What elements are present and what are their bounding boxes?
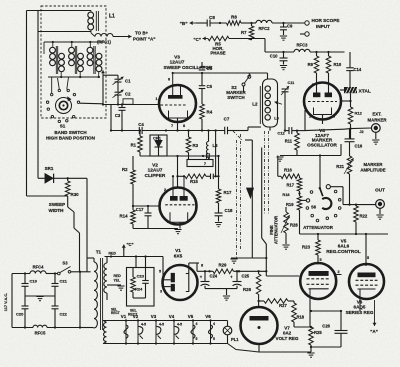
svg-text:HIGH BAND POSITION: HIGH BAND POSITION [46, 136, 95, 141]
svg-text:SR1: SR1 [45, 166, 54, 171]
svg-text:C25: C25 [242, 274, 250, 279]
svg-text:R27: R27 [279, 303, 287, 308]
svg-text:5: 5 [367, 256, 369, 260]
svg-text:R10: R10 [334, 62, 342, 67]
svg-text:V1: V1 [175, 248, 181, 254]
svg-text:R17: R17 [224, 190, 233, 195]
svg-text:PHASE: PHASE [210, 51, 225, 56]
svg-text:C9: C9 [287, 24, 293, 29]
svg-text:R23: R23 [302, 245, 311, 250]
svg-text:R18: R18 [282, 192, 290, 197]
svg-text:S3: S3 [62, 261, 68, 266]
svg-text:CR1: CR1 [153, 136, 162, 141]
svg-text:R30: R30 [71, 192, 80, 197]
svg-text:REG.CONTROL: REG.CONTROL [326, 249, 361, 254]
svg-text:ATTENUATOR: ATTENUATOR [274, 216, 279, 244]
svg-text:C26: C26 [322, 324, 330, 329]
svg-text:“B”: “B” [180, 21, 188, 26]
svg-text:12AU7: 12AU7 [170, 60, 185, 66]
svg-text:MARKER: MARKER [368, 118, 388, 123]
svg-text:6: 6 [168, 78, 170, 82]
svg-text:YEL: YEL [114, 279, 121, 283]
svg-text:C10: C10 [270, 54, 278, 59]
svg-text:C7: C7 [224, 117, 230, 122]
svg-text:RED: RED [114, 274, 122, 278]
svg-text:INPUT: INPUT [316, 24, 330, 29]
svg-text:T1: T1 [96, 250, 102, 255]
svg-text:R8: R8 [231, 15, 237, 20]
svg-text:4-5: 4-5 [159, 322, 164, 326]
svg-text:V4: V4 [169, 314, 175, 319]
svg-text:L1: L1 [109, 14, 115, 20]
svg-text:2: 2 [164, 188, 166, 192]
svg-text:“A”: “A” [370, 329, 378, 334]
svg-text:BAND SWITCH: BAND SWITCH [54, 130, 86, 135]
svg-text:R25: R25 [314, 330, 322, 335]
svg-text:7: 7 [191, 193, 193, 197]
svg-text:4: 4 [196, 322, 198, 326]
svg-text:R21: R21 [336, 164, 344, 169]
svg-text:C19: C19 [30, 279, 38, 284]
svg-text:C22: C22 [60, 312, 68, 317]
svg-text:R11: R11 [285, 139, 293, 144]
svg-text:PL1: PL1 [231, 337, 239, 342]
svg-text:R22: R22 [360, 214, 368, 219]
svg-text:4-5: 4-5 [141, 322, 146, 326]
svg-text:RED: RED [109, 252, 117, 256]
svg-text:C18: C18 [225, 208, 234, 213]
svg-text:OSCILLATOR: OSCILLATOR [307, 142, 337, 147]
svg-text:R4: R4 [207, 110, 213, 115]
svg-text:6AL6: 6AL6 [338, 244, 350, 249]
svg-text:6X5: 6X5 [174, 254, 183, 260]
svg-text:RFC4: RFC4 [33, 265, 44, 270]
svg-text:R28: R28 [290, 223, 298, 228]
svg-text:R3: R3 [193, 143, 199, 148]
svg-text:C24: C24 [210, 274, 218, 279]
svg-text:R24: R24 [135, 287, 143, 292]
svg-text:TO B+: TO B+ [135, 31, 149, 36]
svg-text:8: 8 [183, 124, 185, 128]
svg-text:R26: R26 [243, 287, 252, 292]
svg-text:C2: C2 [125, 92, 131, 97]
svg-text:C21: C21 [60, 279, 68, 284]
svg-text:HOR SCOPE: HOR SCOPE [312, 18, 340, 23]
svg-text:WIDTH: WIDTH [49, 208, 64, 213]
svg-text:5: 5 [319, 258, 321, 262]
svg-text:“C”: “C” [193, 37, 201, 42]
svg-text:SWITCH: SWITCH [227, 95, 245, 100]
svg-text:OUT: OUT [375, 188, 385, 193]
svg-text:R18: R18 [297, 315, 305, 320]
svg-text:S1: S1 [60, 124, 66, 129]
svg-text:C5: C5 [207, 84, 213, 89]
svg-text:5: 5 [312, 83, 314, 87]
svg-text:R16: R16 [284, 168, 292, 173]
svg-text:1: 1 [309, 115, 311, 119]
svg-text:R9: R9 [308, 62, 314, 67]
svg-text:3: 3 [160, 290, 162, 294]
svg-text:EXT.: EXT. [372, 112, 381, 117]
svg-text:0A2: 0A2 [283, 331, 292, 336]
svg-text:XTAL: XTAL [359, 89, 371, 95]
svg-text:R12: R12 [355, 111, 363, 116]
svg-text:C11: C11 [288, 81, 295, 85]
svg-text:R29: R29 [219, 263, 228, 268]
svg-text:L2: L2 [252, 102, 258, 107]
svg-text:V6: V6 [205, 314, 211, 319]
svg-text:“C”: “C” [127, 242, 134, 247]
svg-text:5: 5 [196, 337, 198, 341]
svg-text:V5: V5 [188, 314, 194, 319]
svg-text:C1: C1 [125, 79, 131, 84]
svg-text:C6: C6 [207, 66, 213, 71]
svg-text:5: 5 [159, 270, 161, 274]
svg-text:117 V.A.C.: 117 V.A.C. [3, 293, 8, 311]
svg-text:RFC3: RFC3 [297, 43, 309, 48]
svg-text:POINT “A”: POINT “A” [133, 37, 155, 42]
svg-text:S6: S6 [311, 205, 317, 210]
svg-text:7: 7 [171, 124, 173, 128]
svg-text:R17: R17 [286, 183, 294, 188]
svg-text:12AU7: 12AU7 [148, 168, 163, 174]
svg-text:C8: C8 [209, 15, 215, 20]
svg-text:C16: C16 [355, 144, 363, 149]
svg-text:C23: C23 [137, 274, 145, 279]
svg-text:4-5: 4-5 [177, 322, 182, 326]
svg-text:RECT: RECT [111, 311, 120, 315]
svg-text:C12: C12 [277, 131, 285, 136]
svg-text:C20: C20 [16, 312, 24, 317]
svg-text:R1: R1 [131, 143, 137, 148]
svg-text:3: 3 [167, 220, 169, 224]
svg-text:C14: C14 [354, 67, 362, 72]
svg-text:J2: J2 [359, 129, 363, 134]
svg-text:R7: R7 [241, 30, 247, 35]
svg-text:RFC2: RFC2 [259, 26, 271, 31]
svg-text:CLIPPER: CLIPPER [145, 173, 166, 179]
svg-text:V2: V2 [133, 314, 139, 319]
svg-text:4: 4 [213, 322, 215, 326]
svg-text:MARKER: MARKER [364, 162, 384, 167]
svg-text:7: 7 [204, 161, 206, 166]
svg-text:C3: C3 [115, 113, 121, 118]
svg-text:1: 1 [155, 97, 157, 101]
svg-text:V1: V1 [121, 314, 127, 319]
svg-text:3: 3 [333, 115, 335, 119]
svg-text:R15: R15 [190, 179, 198, 184]
svg-text:VOLT REG: VOLT REG [276, 336, 299, 341]
svg-text:ATTENUATOR: ATTENUATOR [303, 225, 334, 230]
svg-text:2: 2 [337, 270, 339, 274]
svg-text:AMPLITUDE: AMPLITUDE [360, 168, 385, 173]
svg-text:C4: C4 [138, 122, 144, 127]
svg-text:R19: R19 [286, 202, 294, 207]
svg-text:SWEEP: SWEEP [49, 202, 65, 207]
svg-text:R2: R2 [122, 167, 128, 172]
svg-text:RFC5: RFC5 [35, 331, 46, 336]
svg-text:R14: R14 [120, 214, 129, 219]
svg-text:5: 5 [213, 337, 215, 341]
svg-text:C17: C17 [136, 207, 144, 212]
svg-text:V3: V3 [151, 314, 157, 319]
